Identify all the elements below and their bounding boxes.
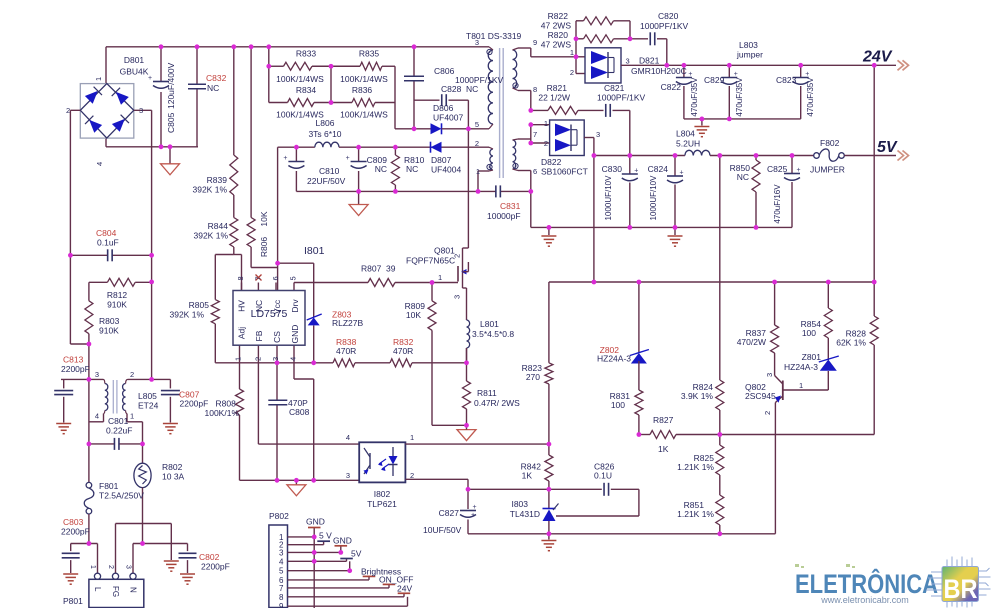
svg-text:C824: C824	[648, 164, 669, 174]
svg-text:8: 8	[533, 85, 537, 94]
svg-text:0.1U: 0.1U	[594, 471, 612, 481]
svg-text:+: +	[346, 155, 350, 162]
svg-text:NC: NC	[466, 84, 478, 94]
svg-text:5.2UH: 5.2UH	[676, 139, 700, 149]
svg-text:9: 9	[533, 38, 537, 47]
svg-text:1: 1	[94, 77, 103, 81]
svg-text:R834: R834	[296, 85, 317, 95]
svg-text:C813: C813	[63, 355, 84, 365]
svg-text:1.21K 1%: 1.21K 1%	[677, 509, 714, 519]
svg-text:NC: NC	[737, 172, 749, 182]
svg-text:62K 1%: 62K 1%	[836, 338, 866, 348]
svg-text:CS: CS	[272, 331, 282, 343]
svg-text:C828: C828	[441, 84, 462, 94]
svg-text:2200pF: 2200pF	[201, 562, 230, 572]
svg-text:2200pF: 2200pF	[61, 364, 90, 374]
svg-text:C806: C806	[434, 66, 455, 76]
svg-text:47 2WS: 47 2WS	[541, 40, 572, 50]
svg-text:R835: R835	[359, 49, 380, 59]
svg-text:2: 2	[254, 357, 263, 361]
svg-text:1: 1	[799, 381, 803, 390]
svg-text:TLP621: TLP621	[367, 499, 397, 509]
svg-text:2200pF: 2200pF	[180, 399, 209, 409]
svg-text:+: +	[148, 75, 152, 82]
svg-text:2: 2	[410, 471, 414, 480]
svg-text:47 2WS: 47 2WS	[541, 21, 572, 31]
svg-text:GND: GND	[333, 536, 352, 546]
svg-text:1: 1	[234, 357, 243, 361]
svg-text:392K 1%: 392K 1%	[194, 231, 229, 241]
svg-text:C831: C831	[500, 201, 521, 211]
svg-text:3: 3	[346, 471, 350, 480]
svg-text:C825: C825	[767, 164, 788, 174]
svg-text:I802: I802	[374, 489, 391, 499]
svg-text:+: +	[688, 71, 692, 78]
svg-text:3.5*4.5*0.8: 3.5*4.5*0.8	[472, 329, 514, 339]
svg-text:BR: BR	[944, 574, 978, 604]
svg-text:GBU4K: GBU4K	[120, 67, 149, 77]
svg-text:5: 5	[279, 567, 284, 576]
svg-text:39: 39	[386, 264, 396, 274]
svg-text:FB: FB	[254, 330, 264, 341]
svg-text:D801: D801	[124, 55, 145, 65]
svg-text:100K/1/4WS: 100K/1/4WS	[276, 74, 324, 84]
svg-text:1: 1	[410, 433, 414, 442]
svg-text:Adj: Adj	[237, 327, 247, 339]
svg-text:F801: F801	[99, 481, 119, 491]
svg-text:2: 2	[130, 370, 134, 379]
svg-text:3: 3	[453, 295, 462, 299]
svg-text:2: 2	[66, 106, 70, 115]
svg-text:R839: R839	[207, 175, 228, 185]
svg-text:100K/1/4WS: 100K/1/4WS	[340, 74, 388, 84]
svg-text:TL431D: TL431D	[510, 509, 540, 519]
svg-text:0.22uF: 0.22uF	[106, 426, 132, 436]
svg-text:UF4007: UF4007	[433, 113, 464, 123]
svg-text:2200pF: 2200pF	[61, 527, 90, 537]
svg-text:9: 9	[279, 602, 284, 608]
svg-text:3: 3	[271, 357, 280, 361]
svg-text:5: 5	[475, 120, 479, 129]
svg-text:UF4004: UF4004	[431, 165, 462, 175]
svg-text:100: 100	[802, 328, 816, 338]
svg-text:ET24: ET24	[138, 401, 159, 411]
svg-text:8: 8	[236, 276, 245, 280]
svg-text:C829: C829	[704, 75, 725, 85]
svg-text:+: +	[473, 504, 477, 511]
svg-text:22 1/2W: 22 1/2W	[538, 93, 570, 103]
svg-text:10K: 10K	[259, 211, 269, 226]
svg-text:3.9K 1%: 3.9K 1%	[681, 391, 714, 401]
svg-text:C823: C823	[776, 75, 797, 85]
svg-text:C832: C832	[206, 73, 227, 83]
svg-text:2SC945: 2SC945	[745, 391, 776, 401]
svg-text:1: 1	[438, 273, 442, 282]
svg-text:1.21K 1%: 1.21K 1%	[677, 462, 714, 472]
svg-text:R803: R803	[99, 316, 120, 326]
svg-text:2: 2	[107, 565, 114, 569]
svg-text:1: 1	[570, 48, 574, 57]
svg-text:C802: C802	[199, 552, 220, 562]
svg-text:C805: C805	[166, 112, 176, 133]
svg-text:GND: GND	[306, 517, 325, 527]
svg-text:R806: R806	[259, 237, 269, 258]
svg-text:www.eletronicabr.com: www.eletronicabr.com	[820, 595, 909, 605]
svg-text:C801: C801	[108, 416, 129, 426]
svg-text:C821: C821	[604, 83, 625, 93]
svg-text:1000PF/1KV: 1000PF/1KV	[455, 75, 504, 85]
svg-text:P802: P802	[269, 511, 289, 521]
svg-text:D822: D822	[541, 157, 562, 167]
svg-text:470/2W: 470/2W	[737, 337, 766, 347]
svg-text:C808: C808	[289, 407, 310, 417]
svg-text:C803: C803	[63, 517, 84, 527]
svg-text:I803: I803	[511, 499, 528, 509]
svg-text:FQPF7N65C: FQPF7N65C	[406, 256, 455, 266]
svg-text:Drv: Drv	[290, 299, 300, 313]
svg-text:L806: L806	[316, 118, 335, 128]
svg-text:R844: R844	[208, 221, 229, 231]
svg-text:2: 2	[475, 139, 479, 148]
svg-text:C830: C830	[602, 164, 623, 174]
svg-text:5: 5	[289, 276, 298, 280]
svg-text:NC: NC	[254, 300, 264, 312]
svg-text:3: 3	[95, 370, 99, 379]
svg-text:+: +	[805, 71, 809, 78]
svg-text:7: 7	[254, 276, 263, 280]
svg-text:22UF/50V: 22UF/50V	[307, 176, 346, 186]
svg-text:jumper: jumper	[736, 50, 763, 60]
svg-text:L: L	[93, 587, 102, 592]
svg-text:1000PF/1KV: 1000PF/1KV	[640, 21, 689, 31]
svg-text:GMR10H200C: GMR10H200C	[631, 66, 687, 76]
svg-text:+: +	[471, 512, 475, 519]
svg-text:6: 6	[533, 167, 537, 176]
svg-text:392K 1%: 392K 1%	[193, 185, 228, 195]
svg-text:2: 2	[453, 254, 462, 258]
svg-text:10K: 10K	[406, 310, 421, 320]
svg-text:R802: R802	[162, 462, 183, 472]
svg-text:R833: R833	[296, 49, 317, 59]
svg-text:C822: C822	[661, 82, 682, 92]
svg-text:+: +	[680, 170, 684, 177]
svg-text:+: +	[734, 71, 738, 78]
svg-text:Vcc: Vcc	[272, 299, 282, 314]
svg-text:120uF/400V: 120uF/400V	[166, 62, 176, 109]
svg-text:RLZ27B: RLZ27B	[332, 318, 364, 328]
svg-text:SB1060FCT: SB1060FCT	[541, 167, 588, 177]
svg-text:3: 3	[626, 57, 630, 66]
svg-text:3Ts 6*10: 3Ts 6*10	[308, 129, 341, 139]
svg-text:R812: R812	[107, 290, 128, 300]
svg-text:3: 3	[125, 565, 132, 569]
svg-text:R821: R821	[547, 83, 568, 93]
svg-text:2: 2	[570, 68, 574, 77]
svg-text:+: +	[283, 155, 287, 162]
svg-text:D821: D821	[639, 56, 660, 66]
svg-text:3: 3	[596, 130, 600, 139]
svg-text:1000PF/1KV: 1000PF/1KV	[597, 93, 646, 103]
svg-text:1000UF/10V: 1000UF/10V	[604, 175, 613, 221]
svg-text:470R: 470R	[393, 346, 413, 356]
svg-text:+: +	[634, 168, 638, 175]
svg-text:1: 1	[130, 412, 134, 421]
svg-text:270: 270	[526, 372, 540, 382]
svg-text:470uF/16V: 470uF/16V	[773, 184, 782, 224]
svg-text:L803: L803	[739, 40, 758, 50]
svg-text:R808: R808	[216, 399, 237, 409]
svg-text:D806: D806	[433, 103, 454, 113]
svg-text:GND: GND	[290, 325, 300, 344]
svg-text:1K: 1K	[522, 471, 533, 481]
svg-text:C827: C827	[439, 508, 460, 518]
svg-text:3: 3	[139, 106, 143, 115]
svg-text:2: 2	[544, 139, 548, 148]
svg-text:7: 7	[279, 584, 284, 593]
svg-text:C820: C820	[658, 11, 679, 21]
svg-text:100K/1/4WS: 100K/1/4WS	[340, 110, 388, 120]
svg-text:24V: 24V	[862, 49, 893, 66]
svg-text:1000UF/10V: 1000UF/10V	[649, 175, 658, 221]
svg-text:392K 1%: 392K 1%	[170, 310, 205, 320]
svg-text:HZ24A-3: HZ24A-3	[597, 354, 631, 364]
svg-text:10UF/50V: 10UF/50V	[423, 525, 462, 535]
svg-text:R822: R822	[548, 11, 569, 21]
svg-text:1K: 1K	[658, 444, 669, 454]
svg-text:F802: F802	[820, 138, 840, 148]
svg-text:NC: NC	[375, 164, 387, 174]
svg-text:P801: P801	[63, 596, 83, 606]
svg-text:5V: 5V	[877, 139, 898, 156]
svg-text:470uF/35V: 470uF/35V	[690, 77, 699, 117]
svg-text:5 V: 5 V	[319, 531, 332, 541]
svg-text:T2.5A/250V: T2.5A/250V	[99, 491, 144, 501]
svg-text:3: 3	[279, 548, 284, 557]
svg-text:L805: L805	[138, 391, 157, 401]
svg-text:10 3A: 10 3A	[162, 472, 185, 482]
svg-text:HZ24A-3: HZ24A-3	[784, 362, 818, 372]
svg-text:L804: L804	[676, 129, 695, 139]
svg-text:2: 2	[763, 411, 772, 415]
svg-text:N: N	[129, 587, 138, 593]
svg-text:1: 1	[89, 565, 96, 569]
svg-text:R807: R807	[361, 264, 382, 274]
svg-text:1: 1	[476, 167, 480, 176]
svg-text:910K: 910K	[99, 326, 119, 336]
svg-text:470uF/35V: 470uF/35V	[735, 77, 744, 117]
svg-text:L801: L801	[480, 319, 499, 329]
svg-text:470uF/35V: 470uF/35V	[806, 77, 815, 117]
svg-text:24V: 24V	[397, 584, 412, 594]
svg-text:4: 4	[289, 357, 298, 361]
svg-text:5V: 5V	[351, 549, 362, 559]
svg-text:Z801: Z801	[802, 352, 822, 362]
svg-text:D807: D807	[431, 155, 452, 165]
svg-text:0.47R/ 2WS: 0.47R/ 2WS	[474, 398, 520, 408]
svg-text:7: 7	[533, 130, 537, 139]
svg-text:100K/1%: 100K/1%	[205, 408, 240, 418]
svg-text:R811: R811	[477, 388, 497, 398]
svg-text:4: 4	[346, 433, 350, 442]
svg-text:I801: I801	[304, 245, 325, 257]
svg-text:3: 3	[765, 373, 774, 377]
svg-text:6: 6	[271, 276, 280, 280]
svg-text:R805: R805	[189, 300, 210, 310]
svg-text:470R: 470R	[336, 346, 356, 356]
svg-text:4: 4	[95, 162, 104, 166]
svg-text:+: +	[797, 167, 801, 174]
svg-text:100: 100	[611, 400, 625, 410]
svg-text:0.1uF: 0.1uF	[97, 238, 119, 248]
svg-text:1: 1	[544, 119, 548, 128]
svg-text:3: 3	[475, 38, 479, 47]
svg-text:8: 8	[279, 593, 284, 602]
svg-text:FG: FG	[111, 586, 120, 597]
svg-text:NC: NC	[406, 164, 418, 174]
svg-text:HV: HV	[237, 300, 247, 312]
svg-text:10000pF: 10000pF	[487, 211, 521, 221]
svg-text:C810: C810	[319, 166, 340, 176]
svg-text:4: 4	[95, 412, 99, 421]
svg-text:JUMPER: JUMPER	[810, 165, 845, 175]
svg-text:R820: R820	[548, 30, 569, 40]
svg-text:NC: NC	[207, 83, 219, 93]
svg-text:C804: C804	[96, 228, 117, 238]
svg-text:R836: R836	[352, 85, 373, 95]
svg-text:R827: R827	[653, 415, 674, 425]
svg-text:4: 4	[279, 557, 284, 566]
svg-text:910K: 910K	[107, 300, 127, 310]
